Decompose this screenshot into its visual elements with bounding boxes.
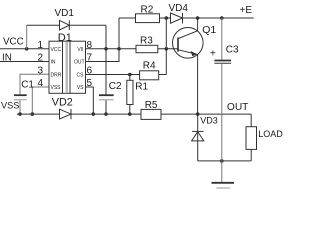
svg-text:6: 6 [87,65,93,76]
node base/R3 [165,47,169,51]
wire VD1 cathode lead [69,24,106,26]
capacitor C2 [99,95,114,114]
svg-text:IN: IN [2,52,12,63]
svg-text:VCC: VCC [51,47,62,53]
svg-text:R2: R2 [141,4,154,15]
svg-text:OUT: OUT [74,60,85,66]
wire R2 left lead [119,17,136,19]
svg-text:4: 4 [37,78,43,89]
svg-text:VSS: VSS [51,85,62,91]
wire pin5 [86,87,94,114]
wire R2 right lead [160,17,171,19]
svg-text:+: + [210,49,216,60]
capacitor C3 [214,18,231,183]
IC D1 outline [49,41,86,93]
node pin4 bottom [31,112,35,116]
svg-text:+E: +E [240,5,253,16]
IC D1 internal divider left [62,41,64,93]
diode VD1 [60,20,70,30]
node VCC junction [25,47,29,51]
wire pin7 row [86,49,120,62]
svg-text:C2: C2 [109,81,122,92]
svg-text:IN: IN [51,60,56,66]
wire pin6 row [86,74,140,76]
svg-text:D1: D1 [58,32,72,44]
wire VCC input [0,48,49,50]
wire VSS rail to R5 [71,113,141,115]
diode VD4 [171,13,183,24]
svg-text:R5: R5 [145,100,158,111]
node C3 junction [220,16,224,20]
svg-text:3: 3 [37,65,43,76]
wire base net vertical [165,18,167,75]
wire R3 right / base lead [158,48,178,50]
IC D1 internal gray band [66,42,69,93]
node VD3 top [196,112,200,116]
wire R2 branch vertical [118,18,120,49]
IC D1 internal divider right [69,41,71,93]
diode VD3 [192,114,204,161]
resistor R4 [140,71,159,80]
wire IN input [0,61,49,63]
svg-text:VD3: VD3 [200,116,218,126]
node R1 bottom [128,112,132,116]
node C1 bottom [18,112,22,116]
svg-text:VD4: VD4 [169,3,189,14]
svg-text:8: 8 [87,40,93,51]
svg-text:VII: VII [77,47,83,53]
node pin5 bottom [92,112,96,116]
capacitor C1 [14,95,27,114]
node R2/VD4/base net [165,16,169,20]
resistor R5 [141,109,161,119]
resistor R3 [136,45,158,52]
svg-text:R3: R3 [140,35,153,46]
node R1 top [128,73,132,77]
wire R4 right lead [159,74,167,76]
svg-text:LOAD: LOAD [258,129,283,139]
transistor Q1 [173,18,204,114]
svg-text:C1: C1 [21,79,34,90]
wire +E rail [183,17,254,19]
svg-text:OUT: OUT [227,102,249,113]
ground symbol [212,183,235,188]
wire pin3 to C1 [20,74,49,94]
node pin8/VD1/C2 [104,47,108,51]
svg-text:VD2: VD2 [52,97,73,109]
svg-text:VD1: VD1 [55,8,75,19]
wire pin8 row [86,48,137,50]
svg-text:R4: R4 [143,61,156,72]
wire OUT line [161,113,251,115]
svg-text:7: 7 [87,53,93,64]
node ground rail [220,159,224,163]
resistor R2 [136,14,160,23]
wire VSS rail [17,113,60,115]
svg-text:VCC: VCC [3,36,24,47]
wire VD1 branch up [26,25,28,49]
node pin8/R2 branch [117,47,121,51]
svg-text:5: 5 [87,78,93,89]
wire VD1 anode lead [27,24,60,26]
svg-text:C3: C3 [226,44,239,55]
svg-text:CS: CS [77,72,85,78]
svg-text:VS: VS [77,85,84,91]
svg-text:DRR: DRR [51,72,62,78]
wire VD1 down to pin8 and C2 [105,25,107,94]
resistor LOAD [246,114,257,161]
svg-text:2: 2 [37,53,43,64]
svg-text:R1: R1 [135,81,148,92]
svg-text:VSS: VSS [1,101,19,111]
svg-text:1: 1 [37,40,43,51]
node collector junction [196,16,200,20]
node C2 bottom [104,112,108,116]
wire pin4 [32,87,49,114]
resistor R1 [127,75,133,115]
svg-text:Q1: Q1 [202,24,216,36]
wire ground rail [198,160,252,162]
diode VD2 [60,109,72,119]
